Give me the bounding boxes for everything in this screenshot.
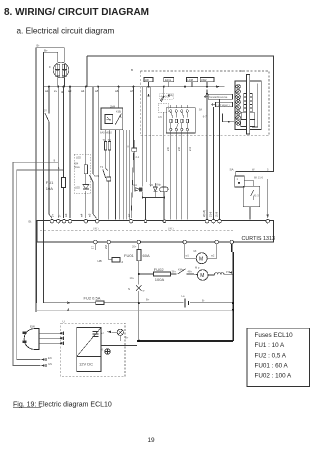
svg-text:w: w xyxy=(143,290,145,293)
transformer hatch xyxy=(93,332,99,337)
svg-text:2-: 2- xyxy=(58,215,62,217)
arrow marker B+ wire xyxy=(67,302,70,304)
fuse FU1 xyxy=(62,177,66,187)
svg-text:K(B): K(B) xyxy=(116,110,121,114)
motor Mp pump xyxy=(197,270,208,281)
svg-text:W: W xyxy=(252,168,255,172)
arrow under module box1 xyxy=(147,94,149,97)
wire pump return xyxy=(224,273,233,275)
vertical wires from bus to controller xyxy=(49,87,133,220)
relay coil KA xyxy=(135,188,140,192)
wire F to bus 2 xyxy=(63,78,65,87)
fuse FU02 xyxy=(154,272,171,276)
plug prong top xyxy=(22,332,26,334)
svg-text:( Kl ): ( Kl ) xyxy=(168,226,174,230)
switch T3 xyxy=(103,169,108,179)
svg-text:LED: LED xyxy=(75,186,80,190)
svg-text:J1-8: J1-8 xyxy=(215,211,219,217)
svg-text:20+: 20+ xyxy=(132,245,137,249)
relay K element xyxy=(132,148,137,151)
relay KY contact xyxy=(115,113,121,124)
svg-text:LW: LW xyxy=(145,78,149,82)
arrow J1-6 xyxy=(266,214,269,217)
svg-text:U: U xyxy=(63,320,65,324)
junction dots on bus xyxy=(48,86,208,88)
wire FU1 branch xyxy=(63,87,65,219)
charger unit dashed box xyxy=(61,323,125,376)
arrow marker B- wire xyxy=(67,308,69,311)
svg-text:B+: B+ xyxy=(44,49,48,53)
svg-text:EN: EN xyxy=(48,356,52,360)
wire Mt right xyxy=(207,244,216,258)
resistor in LED box xyxy=(84,165,87,174)
module box 2 xyxy=(164,78,174,82)
svg-text:FU02: FU02 xyxy=(154,267,165,272)
wire aux bundle right of relay xyxy=(115,130,129,220)
arrow pump return xyxy=(229,271,232,273)
arrow into forward box xyxy=(204,96,208,98)
relay KY box xyxy=(101,108,123,130)
arrow bars mains xyxy=(63,332,65,346)
svg-text:M: M xyxy=(199,256,203,262)
svg-text:forward/reverse: forward/reverse xyxy=(209,95,228,99)
junction dots B- rail xyxy=(232,302,234,304)
bottom pin labels xyxy=(91,245,109,249)
svg-text:Fuses ECL10: Fuses ECL10 xyxy=(255,332,294,339)
svg-text:2+: 2+ xyxy=(54,89,57,93)
connector center stem xyxy=(247,75,250,135)
wire T1 xyxy=(105,130,107,169)
svg-text:LW2: LW2 xyxy=(201,78,207,82)
wire wiper to controller xyxy=(212,107,214,220)
svg-text:36+: 36+ xyxy=(172,270,177,274)
caption underline xyxy=(13,407,41,409)
arrows mains xyxy=(59,332,63,345)
svg-text:60A: 60A xyxy=(143,253,150,258)
wire battery positive chain xyxy=(138,244,140,341)
svg-text:EW: EW xyxy=(30,325,35,329)
svg-text:w5: w5 xyxy=(88,213,92,217)
svg-text:w4: w4 xyxy=(81,89,85,93)
svg-text:FU01 : 60 A: FU01 : 60 A xyxy=(255,363,289,370)
svg-text:M p: M p xyxy=(195,266,200,270)
relay KY inner coil box xyxy=(105,115,113,124)
svg-text:2-4: 2-4 xyxy=(188,147,192,151)
wire relay KY feed xyxy=(97,87,99,219)
svg-text:4-5: 4-5 xyxy=(158,115,162,119)
svg-text:+l: +l xyxy=(101,331,104,335)
wire J1-6 down xyxy=(267,179,269,218)
svg-text:tON: tON xyxy=(95,174,100,178)
svg-text:9: 9 xyxy=(54,158,56,162)
svg-text:48+: 48+ xyxy=(188,270,193,274)
wire B- horizontal light xyxy=(36,309,233,311)
wire F to bus xyxy=(57,78,59,87)
fuse table box xyxy=(247,328,310,386)
fuse FU2 xyxy=(96,301,104,305)
wire Et left drop xyxy=(36,222,38,303)
svg-text:SA: SA xyxy=(230,168,234,172)
wire into Mp xyxy=(190,273,198,276)
svg-text:FU1 : 10 A: FU1 : 10 A xyxy=(255,342,286,349)
svg-text:P B: P B xyxy=(226,270,230,274)
wire Mt left xyxy=(185,244,197,258)
wire charger out xyxy=(101,344,137,346)
svg-text:12cm: 12cm xyxy=(165,78,171,82)
svg-text:FU2 0.5A: FU2 0.5A xyxy=(84,296,101,301)
S2 upper dashed boxlet xyxy=(160,94,174,100)
switch S2 contacts xyxy=(160,96,165,103)
controller top pin labels xyxy=(51,210,219,217)
wire 1 to charger xyxy=(17,170,64,360)
svg-text:S2y: S2y xyxy=(169,93,174,97)
wire 9 to charger xyxy=(13,162,58,365)
junction dot coil xyxy=(164,197,166,199)
key switch SA box xyxy=(243,186,260,207)
connector F (key switch) xyxy=(53,62,69,78)
wire B- rail xyxy=(36,48,64,312)
charger transformer box xyxy=(77,328,101,372)
wire group to relay coils xyxy=(143,87,151,187)
controller CURTIS 1313 box xyxy=(37,220,274,242)
svg-text:2-6: 2-6 xyxy=(166,147,170,151)
arrows charge GN xyxy=(41,364,45,367)
wire 2- to pin xyxy=(57,87,59,219)
arrow on wire 207 xyxy=(206,91,209,95)
switch S2 dashed box xyxy=(158,103,168,112)
wire switch t branch xyxy=(93,87,97,219)
control unit dashed box xyxy=(140,71,269,135)
wire mains N xyxy=(39,337,59,339)
controller bottom pins xyxy=(94,240,234,244)
earth symbol xyxy=(105,349,110,354)
svg-text:w1: w1 xyxy=(186,254,190,258)
wire coil common xyxy=(143,183,165,220)
S4 poles xyxy=(170,110,189,131)
wire w4 xyxy=(69,87,71,219)
svg-text:FU2 : 0,5 A: FU2 : 0,5 A xyxy=(255,352,287,359)
junction dots battery chain xyxy=(138,302,140,304)
svg-text:F: F xyxy=(49,65,51,69)
wire stub to connector xyxy=(223,114,235,122)
svg-text:FU02 : 100 A: FU02 : 100 A xyxy=(255,373,293,380)
svg-text:La: La xyxy=(182,294,185,298)
wires S4 to controller xyxy=(171,105,188,220)
svg-text:6-7: 6-7 xyxy=(203,115,207,119)
svg-text:S: S xyxy=(128,287,130,291)
wire battery positive horizontal xyxy=(43,302,233,304)
svg-text:d: d xyxy=(122,260,124,264)
plug prong bottom xyxy=(22,340,26,342)
switch bank S4 box xyxy=(166,108,195,133)
wire bus B+ xyxy=(43,86,224,88)
fuse FU01 xyxy=(137,249,141,260)
svg-text:6K J1-6: 6K J1-6 xyxy=(254,176,263,180)
wire K to KA xyxy=(133,140,135,187)
1M dot xyxy=(238,182,240,184)
svg-text:( Kl ): ( Kl ) xyxy=(93,226,99,230)
indicator lamp xyxy=(117,329,123,335)
transformer diagonal xyxy=(77,328,101,357)
module box 1 xyxy=(144,78,153,82)
outer box frame xyxy=(87,56,274,176)
left rail stub xyxy=(86,56,88,87)
arrow into wiper box xyxy=(212,103,216,105)
wire T2 xyxy=(108,130,110,177)
junction dot pump branch xyxy=(138,273,140,275)
wire 1M to SA xyxy=(244,181,253,187)
svg-text:FU1: FU1 xyxy=(46,180,54,185)
svg-text:GN: GN xyxy=(48,362,52,366)
motor Mt traction xyxy=(196,253,207,264)
svg-text:B: B xyxy=(131,68,133,72)
svg-text:w4: w4 xyxy=(80,213,84,217)
wire LED internal xyxy=(85,174,87,185)
svg-text:KA: KA xyxy=(134,183,138,187)
arrows charge EN xyxy=(41,358,45,361)
wire T down xyxy=(108,181,110,220)
svg-text:2M4: 2M4 xyxy=(110,104,116,108)
LED assembly dashed box xyxy=(74,154,90,193)
svg-text:21-6: 21-6 xyxy=(209,211,213,217)
svg-text:2-1: 2-1 xyxy=(136,155,140,159)
svg-text:(84: (84 xyxy=(75,162,79,166)
svg-text:10+: 10+ xyxy=(130,276,135,280)
box pd wiper xyxy=(216,102,233,107)
box forward/reverse xyxy=(208,94,232,99)
wire EY branch xyxy=(49,87,52,219)
relay KY coil symbol xyxy=(107,117,112,121)
svg-text:8. WIRING/ CIRCUIT DIAGRAM: 8. WIRING/ CIRCUIT DIAGRAM xyxy=(4,7,149,18)
diode VD xyxy=(153,187,157,192)
terminal block under T3 xyxy=(107,177,111,181)
svg-text:M: M xyxy=(200,273,204,279)
lamp wire xyxy=(112,332,121,341)
svg-text:B-: B- xyxy=(202,298,205,302)
plug EW xyxy=(24,329,39,350)
contactor tip terminals xyxy=(105,142,107,151)
svg-text:B-: B- xyxy=(37,44,40,48)
module box texts xyxy=(145,78,207,82)
svg-text:( pd wiper ): ( pd wiper ) xyxy=(217,103,230,107)
svg-text:HB: HB xyxy=(98,259,102,263)
svg-text:1: 1 xyxy=(237,177,239,181)
connector screw terminals xyxy=(236,84,241,125)
wire B- bottom thick xyxy=(137,340,233,342)
svg-text:w2: w2 xyxy=(211,254,215,258)
connector block X1 xyxy=(235,81,261,130)
wire w7 xyxy=(131,87,133,219)
module box 4 xyxy=(200,78,214,82)
svg-text:2-8: 2-8 xyxy=(177,147,181,151)
contactor KMp contact xyxy=(178,269,190,274)
svg-text:2(1-8): 2(1-8) xyxy=(202,210,206,217)
svg-text:X1: X1 xyxy=(240,69,244,73)
svg-text:19: 19 xyxy=(148,437,156,444)
svg-text:17: 17 xyxy=(91,246,95,249)
svg-text:B+: B+ xyxy=(125,336,129,340)
wire SA box down xyxy=(249,207,251,220)
svg-text:w7: w7 xyxy=(127,213,131,217)
wire B+ rail xyxy=(43,52,57,303)
switch EY xyxy=(45,113,49,122)
svg-text:KMp: KMp xyxy=(156,183,162,187)
lamp feed arrow xyxy=(107,331,111,333)
inductor pump xyxy=(208,273,224,275)
svg-text:41-3: 41-3 xyxy=(254,194,260,198)
svg-text:2+: 2+ xyxy=(51,214,55,217)
svg-text:EY: EY xyxy=(43,109,47,113)
module box 3 xyxy=(186,78,197,82)
svg-text:12V DC: 12V DC xyxy=(79,362,93,367)
LED diode symbol xyxy=(83,185,89,190)
connector inner frame xyxy=(252,84,258,128)
svg-text:a. Electrical circuit diagram: a. Electrical circuit diagram xyxy=(17,27,115,36)
svg-text:KMp: KMp xyxy=(178,268,184,272)
bus end arrow xyxy=(216,85,220,87)
wire S2 down xyxy=(163,87,165,220)
svg-text:2M: 2M xyxy=(104,245,108,249)
transformer split xyxy=(77,356,101,358)
svg-text:+g: +g xyxy=(100,348,104,351)
wire forward to controller xyxy=(206,90,208,220)
arrow under module box2 xyxy=(168,94,170,97)
wire pump branch xyxy=(139,273,177,275)
connector pin grid xyxy=(241,94,255,127)
contactor coil KMp xyxy=(160,187,168,192)
svg-text:w1: w1 xyxy=(45,89,49,93)
svg-text:w3: w3 xyxy=(64,213,68,217)
wire B- main drop xyxy=(232,244,233,341)
wire LED branch xyxy=(85,87,87,219)
wire pin stub xyxy=(94,244,96,250)
wire aux to controller xyxy=(219,99,221,219)
wire mains PE xyxy=(39,342,59,344)
resistor HB xyxy=(112,258,120,263)
svg-text:T3: T3 xyxy=(100,165,104,169)
disconnect S xyxy=(136,285,141,291)
wires module boxes to bus xyxy=(149,82,208,87)
svg-text:Mt: Mt xyxy=(194,249,197,253)
svg-text:10A: 10A xyxy=(46,186,53,191)
svg-text:B+: B+ xyxy=(146,298,150,302)
svg-text:K: K xyxy=(128,145,130,149)
wire relay right 2M4 xyxy=(119,87,127,220)
controller top pins xyxy=(50,219,269,223)
svg-text:LCM: LCM xyxy=(187,78,192,82)
svg-text:100A: 100A xyxy=(155,277,165,282)
wire labels under bus xyxy=(45,89,134,94)
wire bundle labels xyxy=(166,147,192,151)
switch tON xyxy=(90,174,96,182)
wire HB xyxy=(109,244,112,260)
svg-text:SA: SA xyxy=(199,108,203,112)
svg-text:5: 5 xyxy=(267,168,269,172)
svg-text:LED: LED xyxy=(76,156,81,160)
controller internal dashed line xyxy=(40,229,233,231)
wire mains L xyxy=(39,332,59,334)
svg-text:VD: VD xyxy=(150,183,154,187)
svg-text:CURTIS 1313: CURTIS 1313 xyxy=(242,236,275,242)
junction dot stub xyxy=(228,121,230,123)
battery La xyxy=(185,299,189,308)
svg-text:FU01: FU01 xyxy=(124,253,135,258)
svg-text:Raw: Raw xyxy=(75,165,80,169)
svg-text:Et: Et xyxy=(29,220,32,224)
SA internal contact xyxy=(251,190,254,200)
interlock 1M box xyxy=(235,176,245,187)
svg-text:6A0 M010: 6A0 M010 xyxy=(100,131,112,135)
